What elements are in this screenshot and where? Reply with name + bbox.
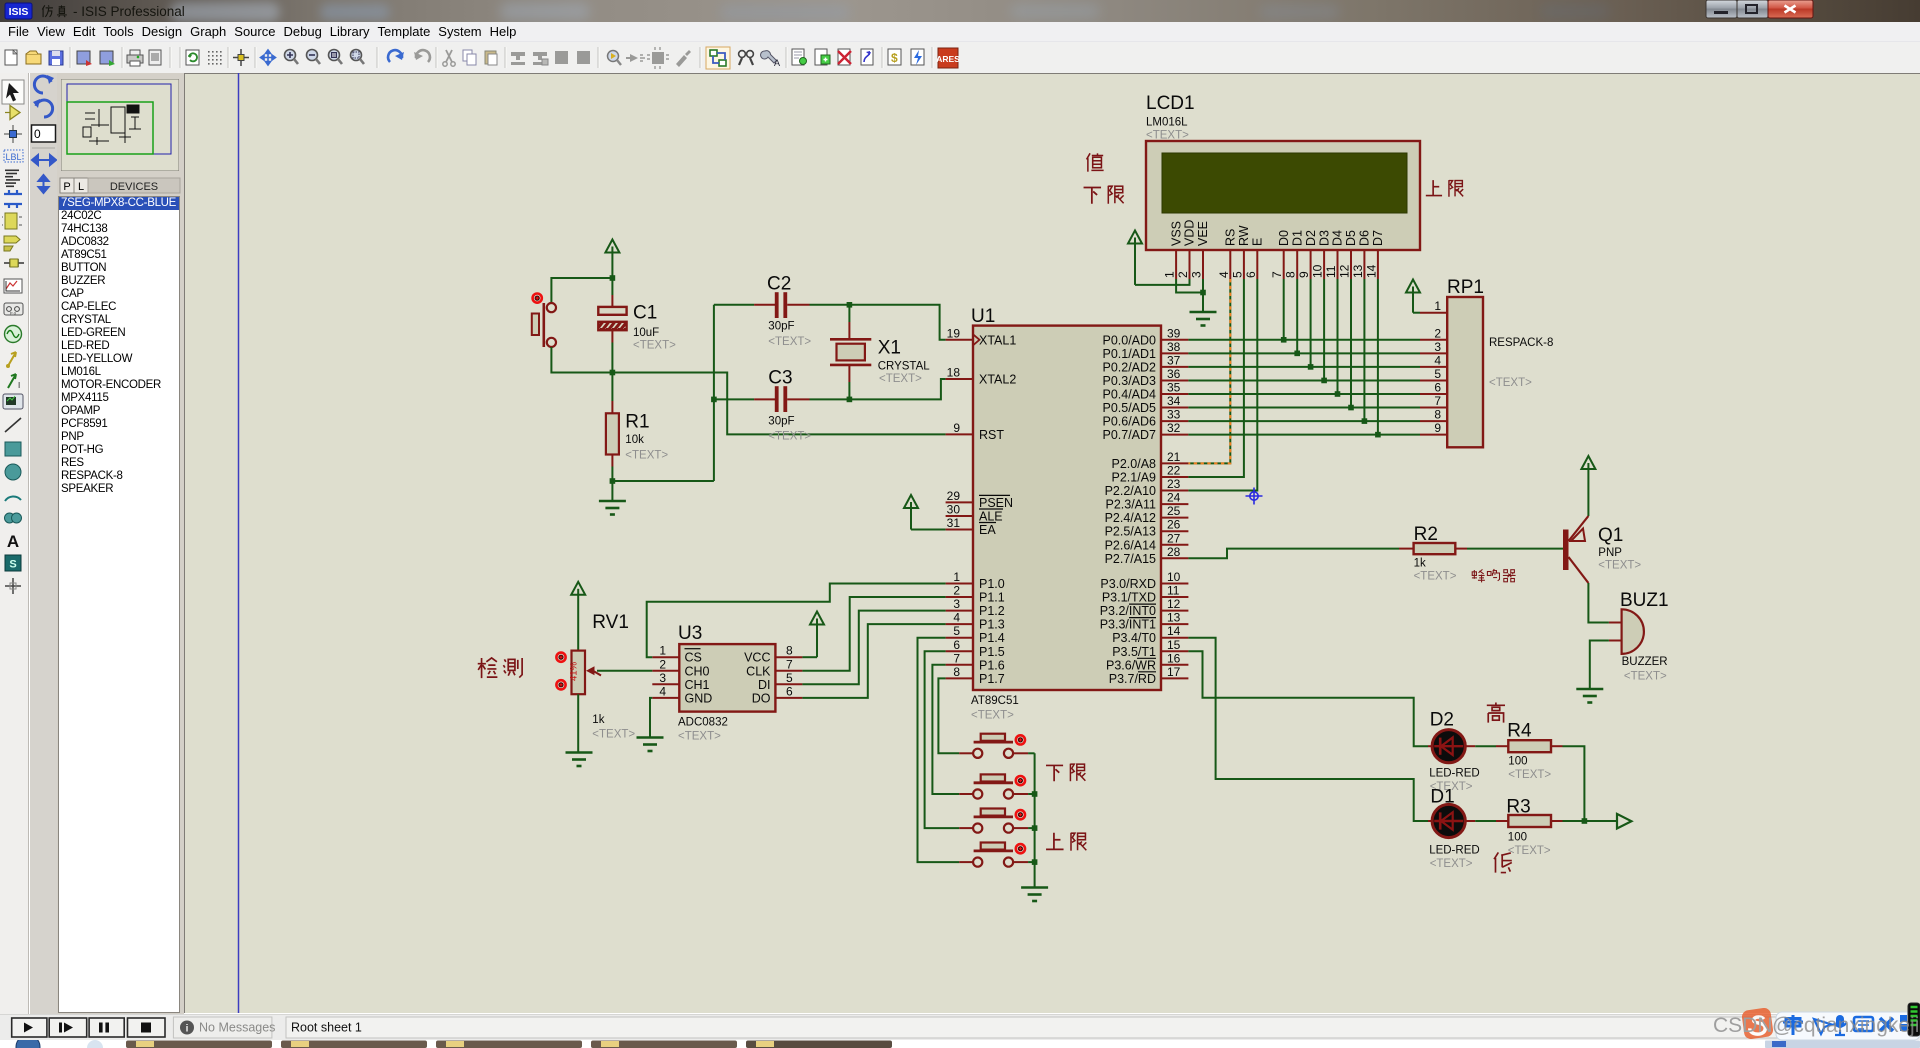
svg-text:<TEXT>: <TEXT> [1624,671,1667,683]
power symbol VCC reset [605,240,619,279]
label 高 [1487,702,1505,722]
svg-text:VCC: VCC [744,651,770,665]
svg-text:RST: RST [979,428,1004,442]
wire D3 [1323,279,1325,380]
svg-text:P1.0: P1.0 [979,577,1005,591]
junction [847,302,853,308]
wire to output arrow [1563,820,1618,822]
junction [1032,859,1038,865]
svg-text:PNP: PNP [1598,547,1622,559]
svg-text:BUZZER: BUZZER [1622,656,1668,668]
junction [1362,418,1368,424]
label 下限 (buttons) [1046,764,1085,782]
svg-text:U3: U3 [678,623,702,644]
svg-text:5: 5 [1230,271,1244,278]
svg-text:27: 27 [1167,531,1181,545]
svg-text:No Messages: No Messages [199,1021,275,1035]
svg-text:1: 1 [1434,299,1441,313]
svg-text:ADC0832: ADC0832 [678,717,728,729]
svg-text:19: 19 [947,326,961,340]
svg-text:23: 23 [1167,477,1181,491]
svg-text:10k: 10k [625,434,644,446]
svg-text:P3.7/RD: P3.7/RD [1109,672,1156,686]
svg-text:1: 1 [659,644,666,658]
svg-text:33: 33 [1167,408,1181,422]
wire P3.4 to D1 [1188,638,1428,821]
svg-text:7: 7 [1434,394,1441,408]
resistor R2 1k [1399,524,1467,583]
svg-text:ISIS: ISIS [9,6,29,18]
svg-text:XTAL1: XTAL1 [979,333,1016,347]
svg-text:11: 11 [1324,265,1338,278]
ADC U3 ADC0832 [652,623,802,743]
junction [1335,391,1341,397]
svg-text:<TEXT>: <TEXT> [633,340,676,352]
svg-text:P2.6/A14: P2.6/A14 [1105,538,1156,552]
svg-text:P3.6/WR: P3.6/WR [1106,658,1156,672]
svg-text:P0.7/AD7: P0.7/AD7 [1102,428,1156,442]
svg-text:24: 24 [1167,491,1181,505]
wire D1 [1296,279,1298,353]
wire VSS [1176,279,1203,293]
svg-text:D7: D7 [1371,230,1385,246]
svg-text:<TEXT>: <TEXT> [768,336,811,348]
svg-text:<TEXT>: <TEXT> [1598,560,1641,572]
svg-text:7: 7 [953,651,960,665]
svg-text:Q1: Q1 [1598,525,1623,546]
buzzer BUZ1 [1609,590,1669,683]
svg-text:D1: D1 [1430,787,1454,808]
wire wiper to CH0 [597,670,652,672]
svg-text:4: 4 [659,684,666,698]
wire DO to P1.3 [802,624,945,698]
svg-text:ARES: ARES [936,54,960,64]
svg-text:R1: R1 [625,412,649,433]
wire P1.7 to button 1 [938,678,959,753]
junction [1582,818,1588,824]
svg-text:P2.7/A15: P2.7/A15 [1105,552,1156,566]
svg-text:P0.4/AD4: P0.4/AD4 [1102,388,1156,402]
capacitor C1 10uF [598,278,676,373]
junction [1348,405,1354,411]
svg-text:P0.2/AD2: P0.2/AD2 [1102,360,1156,374]
svg-text:P2.3/A11: P2.3/A11 [1105,498,1156,512]
transistor Q1 PNP [1563,516,1641,583]
svg-text:<TEXT>: <TEXT> [1489,377,1532,389]
svg-text:31: 31 [947,516,961,530]
wire P0.5 bus [1188,407,1420,409]
label 上限 (LCD) [1426,180,1463,197]
svg-text:L: L [78,181,84,193]
label 蜂鸣器 [1472,569,1516,582]
svg-text:5: 5 [953,624,960,638]
svg-text:P1.4: P1.4 [979,631,1005,645]
svg-text:Root sheet 1: Root sheet 1 [291,1021,362,1035]
svg-text:4: 4 [953,611,960,625]
svg-text:4: 4 [1217,271,1231,278]
svg-text:LCD1: LCD1 [1146,93,1195,114]
svg-text:P1.5: P1.5 [979,645,1005,659]
svg-text:X1: X1 [878,338,901,359]
power symbol LCD VDD [1128,231,1142,285]
junction [1294,351,1300,357]
wire [551,347,612,373]
svg-text:P3.4/T0: P3.4/T0 [1112,631,1156,645]
svg-text:21: 21 [1167,450,1181,464]
svg-text:100: 100 [1508,832,1527,844]
power symbol to EA [904,495,946,530]
junction [1200,290,1206,296]
svg-text:LED-RED: LED-RED [1429,845,1479,857]
svg-text:14: 14 [1167,624,1181,638]
svg-text:32: 32 [1167,421,1181,435]
wire [1588,583,1609,623]
wire P1.5 to button 3 [925,651,960,828]
LED D2 LED-RED [1428,710,1480,794]
junction [1032,825,1038,831]
svg-text:10uF: 10uF [633,327,659,339]
junction [1281,337,1287,343]
svg-text:39: 39 [1167,326,1181,340]
svg-text:D2: D2 [1304,230,1318,246]
svg-text:7: 7 [786,657,793,671]
svg-text:PSEN: PSEN [979,496,1013,510]
wire [1028,793,1035,795]
svg-text:2: 2 [1434,326,1441,340]
label 低 [1494,852,1512,872]
svg-text:R2: R2 [1414,524,1438,545]
svg-text:P1.7: P1.7 [979,672,1005,686]
junction [847,397,853,403]
wire [1028,752,1035,754]
wire [612,480,714,482]
svg-text:3: 3 [1190,271,1204,278]
svg-text:C3: C3 [768,368,792,389]
LCD LCD1 LM016L [1146,93,1420,279]
svg-text:<TEXT>: <TEXT> [1508,769,1551,781]
svg-text:GND: GND [685,691,713,705]
svg-text:13: 13 [1167,611,1181,625]
junction [1375,432,1381,438]
svg-text:P1.1: P1.1 [979,591,1005,605]
push button 1 [959,734,1028,758]
svg-text:14: 14 [1364,264,1378,278]
svg-text:RESPACK-8: RESPACK-8 [1489,337,1553,349]
wire CLK to P1.1 [802,597,945,671]
svg-text:C1: C1 [633,303,657,324]
svg-text:P2.2/A10: P2.2/A10 [1105,484,1156,498]
svg-text:30: 30 [947,503,961,517]
svg-text:13: 13 [1351,264,1365,278]
svg-text:R3: R3 [1506,797,1530,818]
svg-text:25: 25 [1167,504,1181,518]
label 值 [1087,153,1104,171]
junction [1321,378,1327,384]
wire RST node [612,373,945,435]
output terminal arrow [1617,814,1631,829]
cursor origin marker [1246,488,1263,505]
svg-text:1: 1 [1163,271,1177,278]
svg-text:9: 9 [1297,271,1311,278]
wire D0 [1283,279,1285,340]
svg-text:<TEXT>: <TEXT> [625,449,668,461]
svg-text:RP1: RP1 [1447,277,1484,298]
wire E [1188,279,1257,491]
wire D6 [1363,279,1365,421]
wire [551,278,612,303]
svg-text:XTAL2: XTAL2 [979,373,1016,387]
svg-text:P0.0/AD0: P0.0/AD0 [1102,333,1156,347]
ground (reset) [599,481,626,515]
svg-text:LBL: LBL [5,152,21,162]
wire [810,305,946,340]
svg-text:9: 9 [1434,421,1441,435]
svg-text:10: 10 [1167,570,1181,584]
svg-text:i: i [186,1024,189,1035]
svg-text:D6: D6 [1358,230,1372,246]
svg-text:<TEXT>: <TEXT> [1146,130,1189,142]
svg-text:29: 29 [947,489,961,503]
svg-text:P1.2: P1.2 [979,604,1005,618]
wire P0.4 bus [1188,393,1420,395]
wire P1.6 to button 2 [932,665,959,794]
junction [610,370,616,376]
svg-text:VDD: VDD [1183,220,1197,246]
svg-text:30pF: 30pF [768,321,794,333]
power symbol RP1 [1406,280,1420,313]
svg-text:CH1: CH1 [685,678,710,692]
svg-text:6: 6 [786,684,793,698]
svg-text:CRYSTAL: CRYSTAL [878,360,931,372]
svg-text:9: 9 [953,421,960,435]
potentiometer RV1 1k [556,612,635,741]
power symbol RV1 [571,582,585,651]
svg-text:RV1: RV1 [592,612,629,633]
wire P0.7 bus [1188,434,1420,436]
svg-text:<TEXT>: <TEXT> [592,729,635,741]
svg-text:36: 36 [1167,367,1181,381]
svg-text:8: 8 [953,665,960,679]
svg-text:8: 8 [1434,408,1441,422]
svg-text:8: 8 [786,644,793,658]
junction [1308,364,1314,370]
wire [1028,827,1035,829]
svg-text:DO: DO [752,691,771,705]
svg-text:37: 37 [1167,353,1181,367]
junction [1032,791,1038,797]
svg-text:BUZ1: BUZ1 [1620,590,1669,611]
svg-text:P2.4/A12: P2.4/A12 [1105,511,1156,525]
wire GND [650,698,652,737]
wire P1.4 to button 4 [918,638,960,862]
svg-text:CLK: CLK [746,664,771,678]
svg-text:P3.3/INT1: P3.3/INT1 [1100,618,1156,632]
push button 2 [959,774,1028,798]
label 下限 (LCD) [1084,186,1124,204]
junction [610,275,616,281]
svg-text:P: P [63,181,70,193]
svg-text:22: 22 [1167,464,1181,478]
svg-text:6: 6 [953,638,960,652]
svg-text:- ISIS Professional: - ISIS Professional [73,4,185,19]
svg-text:RS: RS [1224,229,1238,246]
svg-text:AT89C51: AT89C51 [971,695,1019,707]
svg-text:P3.5/T1: P3.5/T1 [1112,645,1156,659]
svg-text:3: 3 [953,597,960,611]
IC U1 AT89C51 microcontroller [946,306,1189,721]
wire RW [1188,279,1244,477]
svg-text:2: 2 [659,657,666,671]
svg-text:P3.2/INT0: P3.2/INT0 [1100,604,1156,618]
junction [610,478,616,484]
push button 3 [959,809,1028,833]
svg-text:CS: CS [685,651,702,665]
svg-text:P0.5/AD5: P0.5/AD5 [1102,401,1156,415]
svg-text:CH0: CH0 [685,664,710,678]
push button (reset) [532,294,556,348]
svg-text:<TEXT>: <TEXT> [1508,845,1551,857]
capacitor C3 30pF [714,368,812,443]
push button 4 [959,843,1028,867]
svg-text:<TEXT>: <TEXT> [971,709,1014,721]
wire VDD [1135,279,1190,285]
ground (RV1) [566,753,593,767]
wire [1028,861,1035,863]
wire P0.3 bus [1188,379,1420,381]
svg-text:0: 0 [34,127,41,141]
wire P2.7 to R2 [1188,549,1399,559]
svg-text:P2.5/A13: P2.5/A13 [1105,525,1156,539]
svg-text:R4: R4 [1507,721,1532,742]
svg-text:41%: 41% [569,661,580,681]
wire DI to P1.2 [802,611,945,685]
wire R4 to R3 node [1563,746,1585,821]
svg-text:26: 26 [1167,518,1181,532]
svg-text:<TEXT>: <TEXT> [678,731,721,743]
svg-text:P1.6: P1.6 [979,658,1005,672]
wire [810,379,946,399]
svg-text:100: 100 [1508,756,1527,768]
svg-text:<TEXT>: <TEXT> [879,373,922,385]
svg-text:8: 8 [1284,271,1298,278]
svg-text:5: 5 [1434,367,1441,381]
svg-text:DI: DI [758,678,771,692]
ground (buttons) [1021,888,1048,902]
svg-text:VEE: VEE [1196,221,1210,246]
wire CS to P1.0 [647,584,946,658]
svg-text:6: 6 [1434,381,1441,395]
svg-text:28: 28 [1167,545,1181,559]
wire D2 [1310,279,1312,367]
svg-text:P3.0/RXD: P3.0/RXD [1100,577,1156,591]
svg-text:7: 7 [1270,271,1284,278]
svg-text:I: I [18,381,20,390]
wire P0.1 bus [1188,352,1420,354]
svg-text:A: A [774,58,780,68]
resistor R3 100 [1475,797,1562,858]
svg-text:D2: D2 [1430,710,1454,731]
svg-text:LED-RED: LED-RED [1429,768,1479,780]
svg-text:D1: D1 [1290,230,1304,246]
svg-text:U1: U1 [971,306,995,327]
LED D1 LED-RED [1428,787,1480,871]
svg-text:5: 5 [786,671,793,685]
svg-text:1k: 1k [592,714,604,726]
svg-text:$: $ [891,51,898,65]
ground (LCD) [1190,293,1217,326]
svg-text:11: 11 [1167,584,1180,598]
svg-text:30pF: 30pF [768,416,794,428]
wire VEE [1202,279,1204,293]
ground (buzzer) [1576,689,1603,703]
svg-text:A: A [7,532,19,551]
svg-text:C2: C2 [767,274,791,295]
svg-text:D0: D0 [1277,230,1291,246]
junction [711,397,717,403]
label 上限 (buttons) [1046,833,1086,851]
svg-text:VSS: VSS [1169,221,1183,246]
wire D4 [1337,279,1339,394]
svg-text:12: 12 [1167,597,1181,611]
resistor R4 100 [1475,721,1562,782]
svg-text:<TEXT>: <TEXT> [1430,858,1473,870]
wire P3.5 to D2 [1188,651,1428,746]
crystal X1 [830,305,930,400]
svg-text:EA: EA [979,523,996,537]
wire [577,694,579,752]
wire button rail [1034,753,1036,887]
svg-text:18: 18 [947,366,961,380]
wire cap rail [713,305,715,481]
wire D5 [1350,279,1352,408]
svg-text:38: 38 [1167,340,1181,354]
svg-text:DEVICES: DEVICES [110,181,158,193]
wire P0.6 bus [1188,420,1420,422]
svg-text:3: 3 [659,671,666,685]
svg-text:2: 2 [953,584,960,598]
resistor pack RP1 RESPACK-8 [1420,277,1553,447]
svg-text:D4: D4 [1331,230,1345,246]
svg-text:RW: RW [1237,225,1251,246]
svg-text:34: 34 [1167,394,1181,408]
wire [1467,548,1563,550]
svg-text:P0.3/AD3: P0.3/AD3 [1102,374,1156,388]
svg-text:4: 4 [1434,353,1441,367]
power symbol U3 VCC [802,612,824,658]
svg-text:E: E [1251,238,1265,246]
svg-text:17: 17 [1167,665,1181,679]
svg-text:1: 1 [953,570,960,584]
wire RS (selected, dashed) [1188,279,1230,463]
svg-text:ALE: ALE [979,510,1003,524]
wire D7 [1377,279,1379,435]
svg-text:P2.0/A8: P2.0/A8 [1112,457,1157,471]
svg-text:2: 2 [1176,271,1190,278]
svg-text:P-9: P-9 [10,311,17,316]
wire [1590,641,1609,689]
svg-text:P0.1/AD1: P0.1/AD1 [1102,347,1156,361]
svg-text:S: S [9,559,16,571]
svg-text:<TEXT>: <TEXT> [768,431,811,443]
svg-text:<TEXT>: <TEXT> [1414,571,1457,583]
svg-text:12: 12 [1338,264,1352,278]
svg-text:P1.3: P1.3 [979,618,1005,632]
wire P0.2 bus [1188,366,1420,368]
svg-text:LM016L: LM016L [1146,117,1188,129]
svg-text:6: 6 [1244,271,1258,278]
svg-text:1k: 1k [1414,558,1426,570]
wire P0.0 bus [1188,339,1420,341]
